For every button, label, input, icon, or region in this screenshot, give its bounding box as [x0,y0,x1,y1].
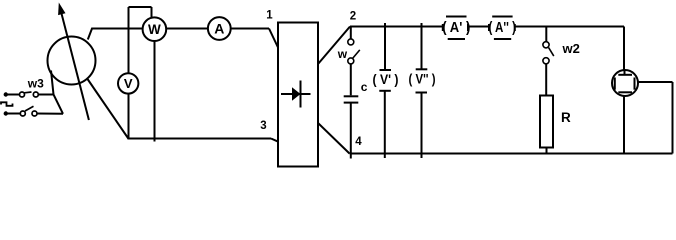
svg-text:2: 2 [350,10,356,22]
svg-text:( V' ): ( V' ) [373,71,399,87]
svg-text:w2: w2 [562,41,580,56]
svg-text:R: R [561,110,571,125]
svg-text:w: w [337,47,348,61]
svg-text:w3: w3 [27,77,44,91]
svg-text:( A' ): ( A' ) [442,20,470,36]
svg-text:3: 3 [260,120,266,132]
svg-text:V: V [124,76,133,91]
svg-text:1: 1 [266,9,273,21]
svg-text:( A'' ): ( A'' ) [488,20,516,36]
svg-text:c: c [361,80,368,94]
svg-text:4: 4 [355,136,362,148]
svg-text:A: A [214,21,224,37]
svg-text:( V'' ): ( V'' ) [409,70,436,86]
svg-text:W: W [148,22,161,37]
